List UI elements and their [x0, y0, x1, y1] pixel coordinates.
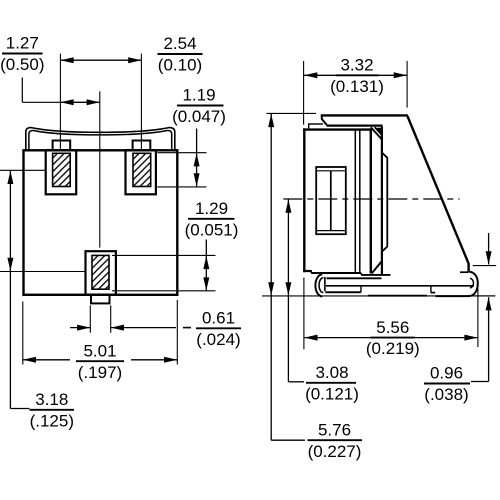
svg-text:(.197): (.197): [78, 363, 122, 382]
svg-text:5.76: 5.76: [318, 420, 351, 439]
svg-text:3.32: 3.32: [340, 56, 373, 75]
svg-text:5.56: 5.56: [376, 318, 409, 337]
svg-text:(.024): (.024): [196, 330, 240, 349]
svg-text:0.61: 0.61: [202, 309, 235, 328]
svg-text:(0.50): (0.50): [0, 55, 44, 74]
svg-text:(0.051): (0.051): [185, 220, 239, 239]
svg-text:(0.131): (0.131): [330, 77, 384, 96]
svg-text:(0.219): (0.219): [366, 339, 420, 358]
svg-text:(0.121): (0.121): [305, 384, 359, 403]
svg-text:(0.047): (0.047): [172, 107, 226, 126]
svg-text:0.96: 0.96: [430, 364, 463, 383]
svg-text:(.038): (.038): [424, 385, 468, 404]
svg-text:(0.10): (0.10): [158, 56, 202, 75]
svg-text:1.19: 1.19: [182, 86, 215, 105]
svg-text:3.08: 3.08: [315, 363, 348, 382]
svg-text:(0.227): (0.227): [308, 442, 362, 461]
svg-text:5.01: 5.01: [83, 341, 116, 360]
svg-text:(.125): (.125): [30, 411, 74, 430]
svg-text:2.54: 2.54: [163, 34, 196, 53]
svg-text:3.18: 3.18: [35, 390, 68, 409]
svg-text:1.27: 1.27: [6, 34, 39, 53]
svg-text:1.29: 1.29: [195, 199, 228, 218]
